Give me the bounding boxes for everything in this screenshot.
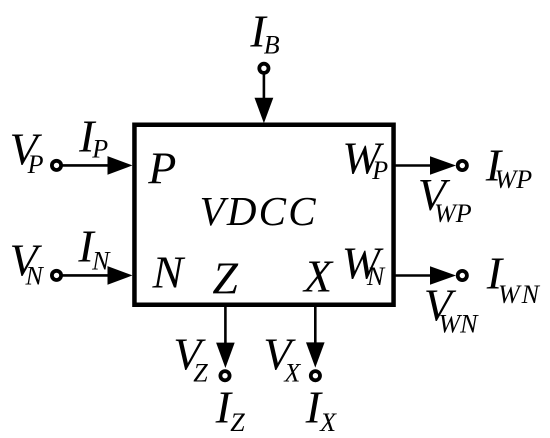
svg-text:P: P <box>27 150 44 179</box>
svg-text:Z: Z <box>212 252 238 303</box>
svg-text:P: P <box>91 135 108 164</box>
svg-text:X: X <box>302 251 334 302</box>
svg-text:VDCC: VDCC <box>200 188 318 234</box>
svg-text:N: N <box>25 261 45 290</box>
svg-text:B: B <box>264 31 280 60</box>
svg-text:WN: WN <box>439 310 480 339</box>
svg-text:WP: WP <box>495 165 533 194</box>
svg-text:N: N <box>91 247 111 276</box>
svg-text:N: N <box>366 262 386 291</box>
svg-text:WN: WN <box>498 280 541 309</box>
svg-text:Z: Z <box>230 408 245 437</box>
svg-text:Z: Z <box>193 358 208 387</box>
svg-text:X: X <box>319 408 337 437</box>
svg-text:P: P <box>147 142 176 193</box>
svg-text:X: X <box>283 358 301 387</box>
svg-text:WP: WP <box>434 199 472 228</box>
svg-text:N: N <box>152 247 186 298</box>
svg-text:P: P <box>371 156 388 185</box>
